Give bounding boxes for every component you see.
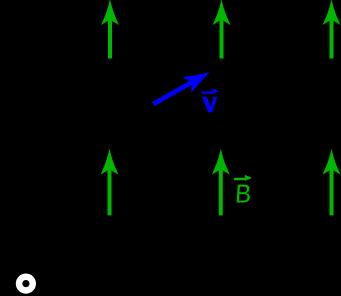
- field arrow B top-middle: [213, 0, 231, 59]
- field arrow B top-left: [101, 0, 119, 59]
- field arrow B bottom-middle: [212, 149, 230, 216]
- charge symbol (white ring with dark center): [16, 274, 36, 294]
- label vec B (green): [234, 175, 252, 209]
- field arrow B bottom-left: [101, 149, 119, 216]
- field arrow B bottom-right: [323, 149, 341, 216]
- svg-text:B: B: [234, 180, 252, 209]
- label vec v (blue): [202, 88, 219, 112]
- field arrow B top-right: [323, 0, 341, 59]
- velocity arrow v (blue): [153, 72, 209, 104]
